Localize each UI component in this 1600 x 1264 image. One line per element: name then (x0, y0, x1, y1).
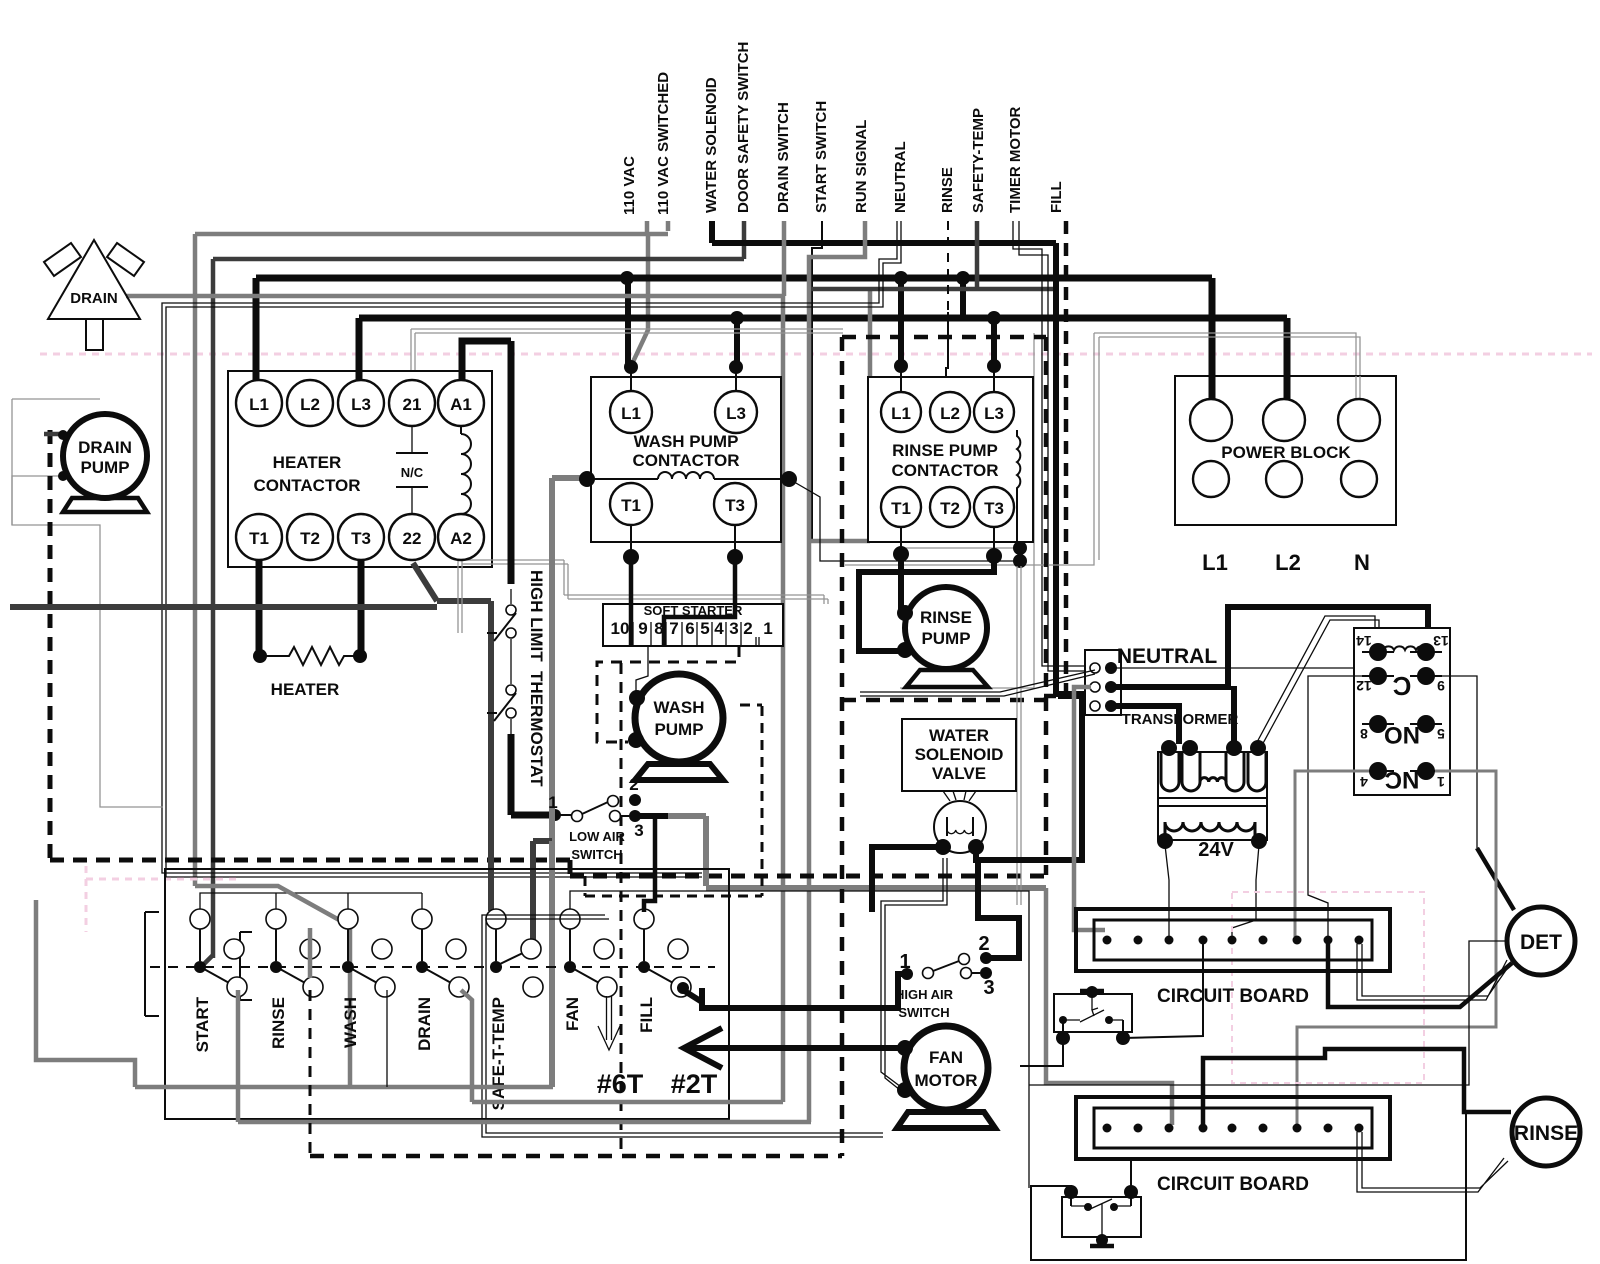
wire FILL dashed drop (1064, 221, 1069, 694)
svg-text:DET: DET (1520, 931, 1562, 954)
high air switch terminal 2 (959, 954, 970, 965)
wire drop to wash L3 (734, 318, 740, 364)
drain symbol left tab (44, 243, 81, 276)
power block terminal L1 bottom (1193, 461, 1229, 497)
SECTION:WASH (579, 360, 1020, 1156)
transformer primary coil (1161, 752, 1179, 791)
wire drop to heater L1 (253, 278, 260, 382)
SECTION:XFMR (860, 607, 1514, 1125)
svg-text:WASH: WASH (341, 997, 360, 1048)
wire comp1 right lead to board1 pin4 (1123, 944, 1203, 1038)
svg-text:LOW AIR: LOW AIR (569, 829, 625, 844)
wire DRAIN SWITCH riser x=783 down (781, 296, 786, 1102)
svg-text:L1: L1 (891, 404, 911, 423)
power block terminal L1 top (1190, 399, 1232, 441)
switch DRAIN (412, 909, 432, 929)
svg-text:VALVE: VALVE (932, 764, 986, 783)
wire thin gray line x=1034 (900, 333, 1034, 688)
wire RINSE feed to board2 pin4 (1203, 1049, 1511, 1125)
low air switch terminal 3 (610, 811, 621, 822)
wire gray from neutral strip row2 down to circuit board 2 (1074, 687, 1105, 930)
wire gray riser at x=195 down to timer area (193, 234, 198, 886)
transformer secondary coil (1165, 822, 1255, 840)
wire drop to power block L1 (1209, 278, 1216, 400)
wire DRAIN SWITCH gray y=296 from drain triangle (782, 221, 787, 296)
svg-text:L3: L3 (351, 395, 371, 414)
rinse contactor coil (1017, 430, 1020, 545)
SECTION:THERMO (487, 341, 1046, 1087)
svg-text:7: 7 (669, 619, 678, 638)
circuit board 1 inner (1094, 920, 1372, 960)
drain symbol triangle (48, 240, 140, 319)
svg-text:N: N (1354, 550, 1370, 575)
relay terminal 8 (1369, 715, 1387, 733)
wash terminal T1 (610, 483, 652, 525)
wire A1 feed from bus (462, 341, 511, 384)
transformer top terminal dots (1161, 740, 1177, 756)
wire dashed stub near fill (585, 705, 762, 896)
switch RINSE (266, 909, 286, 929)
wire soft starter to wash pump top terminal (636, 646, 648, 692)
svg-text:21: 21 (403, 395, 422, 414)
wire FILL lower contact to high air 1 (677, 982, 689, 994)
relay component 2 top leads (1071, 1192, 1131, 1206)
svg-text:2: 2 (743, 619, 752, 638)
heater terminal 22 (389, 514, 435, 560)
drain symbol right tab (107, 243, 144, 276)
wash pump base (635, 764, 723, 780)
svg-text:3: 3 (634, 821, 643, 840)
svg-text:T3: T3 (351, 529, 371, 548)
wire dashed branch down to timer dashed run (620, 663, 623, 1156)
power block box (1175, 376, 1396, 525)
relay component 1 bottom leads (1063, 1020, 1123, 1038)
rinse terminal L2 (930, 392, 970, 432)
svg-text:RINSE: RINSE (920, 608, 972, 627)
power block terminal N top (1338, 399, 1380, 441)
wire high air 1 to fill switch contact (702, 974, 907, 1008)
svg-text:MOTOR: MOTOR (915, 1071, 978, 1090)
relay component 2 contacts (1071, 1199, 1131, 1244)
relay terminal 9 (1417, 667, 1435, 685)
wire thin black fan-top run to DET and comp2 (1029, 941, 1508, 1085)
wire 110 VAC SWITCHED stub (666, 221, 671, 231)
power block terminal N bottom (1341, 461, 1377, 497)
relay component 1 top lead (1080, 989, 1104, 994)
wash pump terminal dots (629, 690, 645, 706)
wire rinse L1 stub (900, 366, 902, 392)
wire A1 drop to thermostat (508, 341, 515, 584)
heater terminal L1 (236, 380, 282, 426)
wire stub into power block L1 (1209, 376, 1216, 403)
switch WASH (338, 909, 358, 929)
wire comp1 left lead (1020, 1038, 1063, 1066)
heater terminal A1 (438, 380, 484, 426)
svg-text:9: 9 (638, 619, 647, 638)
svg-text:2: 2 (978, 933, 989, 955)
wire L3 stub into box (356, 371, 363, 382)
wire heater contactor 21-22 link with N/C break (411, 426, 413, 514)
svg-text:12: 12 (1356, 678, 1372, 694)
timer common dashed line (150, 966, 715, 968)
wash contactor coil line (591, 478, 658, 480)
svg-text:6: 6 (685, 619, 694, 638)
svg-text:A2: A2 (450, 529, 472, 548)
wire 110 VAC stub (645, 221, 650, 236)
wire drain pump feed stub charcoal (44, 432, 63, 437)
svg-text:10: 10 (611, 619, 630, 638)
neutral strip terminals (1090, 663, 1100, 673)
wire from wash coil right thin (789, 479, 1020, 561)
relay coil symbol (1383, 646, 1427, 650)
pink guide rectangle right (1232, 892, 1424, 1083)
wire FILL top to low air junction (644, 816, 655, 912)
svg-text:WASH PUMP: WASH PUMP (634, 432, 739, 451)
SECTION:BUSES (40, 221, 1592, 1122)
svg-text:110 VAC SWITCHED: 110 VAC SWITCHED (655, 72, 672, 215)
wire gray y=1102 to drain switch label riser (472, 1100, 783, 1105)
svg-text:T1: T1 (891, 499, 911, 518)
svg-text:13: 13 (1433, 633, 1449, 649)
svg-text:FILL: FILL (637, 997, 656, 1033)
svg-text:FILL: FILL (1048, 181, 1065, 213)
high limit thermostat switch 1 (510, 589, 512, 604)
wire transformer dot4 double line to relay 14 (1256, 616, 1379, 747)
svg-text:POWER BLOCK: POWER BLOCK (1221, 443, 1351, 462)
wire neutral strip row1 to relay coil thin (1111, 667, 1354, 669)
wire heater 22 to safe-t-temp (charcoal) (413, 563, 437, 601)
svg-text:5: 5 (700, 619, 709, 638)
svg-text:14: 14 (1356, 633, 1372, 649)
wire gray branch y=541 to x=870 (809, 539, 870, 544)
heater terminal L3 (338, 380, 384, 426)
wire drop to power block L2 (1284, 318, 1291, 400)
water solenoid valve coil symbol (947, 817, 973, 836)
wire wash T3 inside soft starter (664, 604, 735, 646)
rinse terminal T3 (974, 487, 1014, 527)
low air switch terminal 2 (608, 796, 619, 807)
relay terminal 5 (1417, 715, 1435, 733)
svg-text:HEATER: HEATER (271, 680, 340, 699)
wire high air 2 riser (978, 860, 1019, 958)
soft starter separators (633, 622, 759, 646)
relay component 2 bottom bar (1090, 1244, 1114, 1249)
relay terminal 4 (1369, 762, 1387, 780)
water solenoid valve terminal dots (935, 839, 951, 855)
wire neutral strip row2 to relay 13 (1111, 607, 1428, 687)
wire relay 1 gray to circuit board 2 (1297, 771, 1496, 1125)
wire drop to wash L1 (625, 278, 631, 364)
heater terminal T3 (338, 514, 384, 560)
svg-text:HIGH AIR: HIGH AIR (895, 987, 954, 1002)
wire low air 3 black segment (635, 813, 668, 819)
wire thermostat output to low air switch (510, 719, 512, 734)
heater terminal 21 (389, 380, 435, 426)
wire wash L1 stub (630, 367, 632, 391)
wire wash coil to safe-t-temp upper contact (gray riser x=552) (549, 478, 555, 841)
high limit thermostat switch 2 (506, 685, 516, 695)
wire rinse L3 stub (993, 366, 995, 392)
wire wash T1 inside soft starter (629, 604, 634, 646)
wire gray low-air run down to circuit board 2 (1046, 888, 1172, 1125)
wire gray drain contact riser (461, 990, 472, 1102)
rinse terminal L3 (974, 392, 1014, 432)
svg-text:SOLENOID: SOLENOID (915, 745, 1004, 764)
wire transformer dot3 up to relay feed (1231, 686, 1237, 744)
rinse pump terminal dots (897, 605, 913, 621)
svg-text:START SWITCH: START SWITCH (813, 101, 830, 213)
wire charcoal riser x=213 down to timer START (211, 259, 216, 958)
svg-text:SAFETY-TEMP: SAFETY-TEMP (970, 108, 987, 213)
circuit board 2 outer (1076, 1097, 1390, 1159)
wire black bus1 y=278 (line L1) (256, 275, 1212, 282)
svg-text:N/C: N/C (401, 465, 424, 480)
wash terminal L1 (610, 391, 652, 433)
timer cam bar (145, 912, 159, 1016)
drain pump terminal dots (58, 430, 68, 440)
svg-text:TIMER MOTOR: TIMER MOTOR (1007, 106, 1024, 213)
fan motor base (897, 1112, 995, 1128)
rinse terminal L1 (881, 392, 921, 432)
wire wash contact thin drop (386, 990, 388, 1087)
transformer outline box (1158, 752, 1267, 840)
wire relay 9 to DET (1435, 676, 1477, 848)
wash terminal L3 (715, 391, 757, 433)
svg-text:T1: T1 (249, 529, 269, 548)
switch FAN (560, 909, 580, 929)
heater contactor coil A1-A2 (460, 426, 462, 434)
svg-text:SWITCH: SWITCH (571, 847, 622, 862)
wire TIMER MOTOR hollow double line (1013, 221, 1085, 666)
rinse terminal T1 (881, 487, 921, 527)
svg-text:RINSE: RINSE (939, 167, 956, 213)
pink guide short left (86, 866, 240, 932)
transformer bottom terminal dots (1157, 833, 1173, 849)
svg-text:RINSE: RINSE (269, 997, 288, 1049)
wash pump circle (635, 674, 723, 762)
circuit board 2 pin dots (1103, 1124, 1364, 1133)
wire wash T3 down to soft starter terminal 8 (734, 524, 736, 557)
high air switch blade (933, 961, 959, 971)
svg-text:4: 4 (714, 619, 724, 638)
wire L1 stub into box (253, 371, 260, 382)
wire stub into power block N (1356, 376, 1360, 403)
svg-text:NEUTRAL: NEUTRAL (1117, 645, 1217, 668)
wire rinse T3 loop to pump lower terminal (993, 527, 995, 556)
SECTION:VALVE (684, 696, 1082, 1128)
wire valve left terminal (872, 847, 943, 912)
svg-text:CONTACTOR: CONTACTOR (632, 451, 739, 470)
rinse pump contactor box (868, 377, 1033, 542)
wire SAFETY-TEMP stub and charcoal run y=289 (975, 221, 980, 289)
fan hollow arrow (598, 996, 620, 1050)
pink guide dashed line (40, 353, 1592, 356)
wire wash T1 down through soft starter (630, 524, 632, 557)
heater contactor box (228, 371, 492, 567)
wire board2 pin9 double line to RINSE (1357, 1132, 1508, 1192)
SECTION:TIMER (36, 705, 1029, 1188)
power block terminal L2 bottom (1266, 461, 1302, 497)
water solenoid valve box (902, 719, 1016, 791)
neutral terminal strip (1085, 650, 1121, 715)
svg-text:L1: L1 (249, 395, 269, 414)
rinse pump circle (905, 587, 987, 669)
drain pump circle (63, 414, 147, 498)
svg-text:NEUTRAL: NEUTRAL (892, 141, 909, 213)
high limit thermostat link (510, 639, 512, 684)
wire thin gray frame to power block N (845, 333, 1360, 565)
wire relay 4 gray to circuit board 1 (1295, 771, 1369, 937)
wire RINSE label line (dashed thin) (947, 221, 949, 312)
svg-text:T3: T3 (725, 496, 745, 515)
wire drop to rinse L1 (898, 278, 904, 364)
svg-text:L2: L2 (300, 395, 320, 414)
RINSE circle (1512, 1098, 1580, 1166)
water solenoid valve coil circle (934, 801, 986, 853)
rinse terminal T2 (930, 487, 970, 527)
SECTION:TOPLABELS (621, 42, 1065, 215)
wire heater T1 to heater element (256, 560, 263, 656)
wire heater T3 to heater element (358, 560, 365, 656)
wire valve right terminal to water solenoid bus and high air 2 (976, 696, 1082, 860)
svg-text:RINSE PUMP: RINSE PUMP (892, 441, 998, 460)
high air switch terminal 3 (961, 968, 972, 979)
wire dashed bottom run (310, 1154, 842, 1159)
wire gray rinse contact riser (236, 990, 241, 1122)
svg-text:T3: T3 (984, 499, 1004, 518)
drain symbol bottom stub (86, 319, 103, 350)
svg-text:A1: A1 (450, 395, 472, 414)
SECTION:LEFT (12, 240, 1046, 932)
relay block box (1354, 628, 1450, 795)
dashed enclosure around rinse circuit (842, 335, 1046, 340)
svg-text:T1: T1 (621, 496, 641, 515)
fan motor circle (904, 1026, 988, 1110)
junction dot thermostat/gray riser (549, 809, 561, 821)
wire fan motor lower terminal thin double to valve coil (881, 858, 947, 1094)
wire black bus2 y=318 (line L2) (359, 315, 1287, 322)
DET circle (1507, 907, 1575, 975)
svg-text:8: 8 (1360, 726, 1368, 742)
wire thin pair from rinse coil downward (1017, 566, 1021, 905)
wire DOOR SAFETY SWITCH stub and charcoal bus y=259 (742, 221, 747, 259)
wire thin pair near A2 (458, 560, 828, 633)
svg-text:CONTACTOR: CONTACTOR (253, 476, 360, 495)
junction dots on bus2 (730, 311, 744, 325)
heater terminal T1 (236, 514, 282, 560)
timer cam bracket (240, 932, 252, 1000)
svg-text:3: 3 (729, 619, 738, 638)
svg-text:L2: L2 (1275, 550, 1301, 575)
wire dashed rinse contact drop (309, 990, 312, 1156)
wire gray feed to WASH pole (195, 886, 350, 1087)
wire double thin loop safe-t-temp to fan top (482, 915, 883, 1137)
svg-text:T2: T2 (300, 529, 320, 548)
heater terminal A2 (438, 514, 484, 560)
heater terminal T2 (287, 514, 333, 560)
wire gray riser x=552 lower continuation (549, 841, 555, 1087)
svg-text:CONTACTOR: CONTACTOR (891, 461, 998, 480)
wire jumper x=963 bus1 to bus2 (960, 278, 966, 318)
power block terminal L2 top (1263, 399, 1305, 441)
wire 24V right to circuit board 1 (1232, 845, 1259, 937)
svg-text:5: 5 (1437, 726, 1445, 742)
svg-text:PUMP: PUMP (921, 629, 970, 648)
wire relay 12 to circuit board 1 (1308, 676, 1369, 937)
wire stub into power block L2 (1284, 376, 1291, 403)
svg-text:NC: NC (1385, 766, 1420, 793)
svg-text:#2T: #2T (671, 1069, 718, 1099)
switch FILL (634, 909, 654, 929)
water solenoid valve coil leads (943, 791, 976, 801)
fan motor terminal dots (897, 1040, 913, 1056)
wash terminal T3 (714, 483, 756, 525)
relay terminal 12 (1369, 667, 1387, 685)
svg-text:L3: L3 (726, 404, 746, 423)
svg-text:1: 1 (763, 619, 772, 638)
wire WATER SOLENOID bus y=243 (709, 221, 715, 243)
svg-text:WATER: WATER (929, 726, 989, 745)
wire 24V left to circuit board 1 (1165, 845, 1169, 937)
svg-text:PUMP: PUMP (80, 458, 129, 477)
svg-text:C: C (1392, 671, 1411, 701)
wire NEUTRAL thin double line (162, 221, 897, 873)
SECTION:BOARDS (1020, 888, 1580, 1260)
svg-text:24V: 24V (1198, 839, 1234, 861)
svg-text:CIRCUIT BOARD: CIRCUIT BOARD (1157, 1174, 1309, 1195)
svg-text:SAFE-T-TEMP: SAFE-T-TEMP (489, 997, 508, 1110)
svg-text:L1: L1 (1202, 550, 1228, 575)
svg-text:HIGH LIMIT THERMOSTAT: HIGH LIMIT THERMOSTAT (527, 570, 546, 787)
rinse coil terminal dots (1013, 541, 1027, 555)
wire neutral strip row1 diagonals to left (860, 670, 1095, 696)
relay terminal 1 (1417, 762, 1435, 780)
wash coil left dot (579, 471, 595, 487)
wire gray y=1122 run to run-signal riser (238, 1120, 811, 1125)
relay terminal 13 (1417, 643, 1435, 661)
svg-text:1: 1 (1437, 774, 1445, 790)
svg-text:RINSE: RINSE (1514, 1122, 1578, 1145)
transformer core lines (1158, 798, 1267, 806)
arrowhead on fan feed (684, 1028, 722, 1068)
wire low air 3 gray segment down to circuit board run (668, 813, 706, 819)
low air switch blade (582, 802, 608, 814)
circuit board 1 pin dots (1103, 936, 1364, 945)
soft starter box (603, 604, 783, 646)
wire gray left hook (36, 900, 135, 1087)
wire START SWITCH thin drop (812, 221, 822, 540)
switch START (190, 909, 210, 929)
wire heavy dashed from drain pump to timer (48, 430, 53, 860)
svg-text:FAN: FAN (929, 1048, 963, 1067)
svg-text:START: START (193, 996, 212, 1052)
svg-text:PUMP: PUMP (654, 720, 703, 739)
SECTION:RINSEC (842, 337, 1046, 1156)
wire comp2 right lead to board2 (1130, 1159, 1132, 1192)
rinse pump base (906, 670, 988, 687)
heater terminal L2 (287, 380, 333, 426)
svg-text:DOOR SAFETY SWITCH: DOOR SAFETY SWITCH (735, 42, 752, 213)
wire RUN SIGNAL gray (809, 221, 865, 1122)
svg-text:#6T: #6T (597, 1069, 644, 1099)
wire gray bus 110VAC: left run and drop to wash contactor L1 (195, 232, 668, 237)
svg-text:22: 22 (403, 529, 422, 548)
svg-text:WASH: WASH (654, 698, 705, 717)
svg-text:L1: L1 (621, 404, 641, 423)
junction dots on bus1 (620, 271, 634, 285)
SECTION:POWER (1175, 376, 1396, 575)
heater element dots (253, 649, 267, 663)
